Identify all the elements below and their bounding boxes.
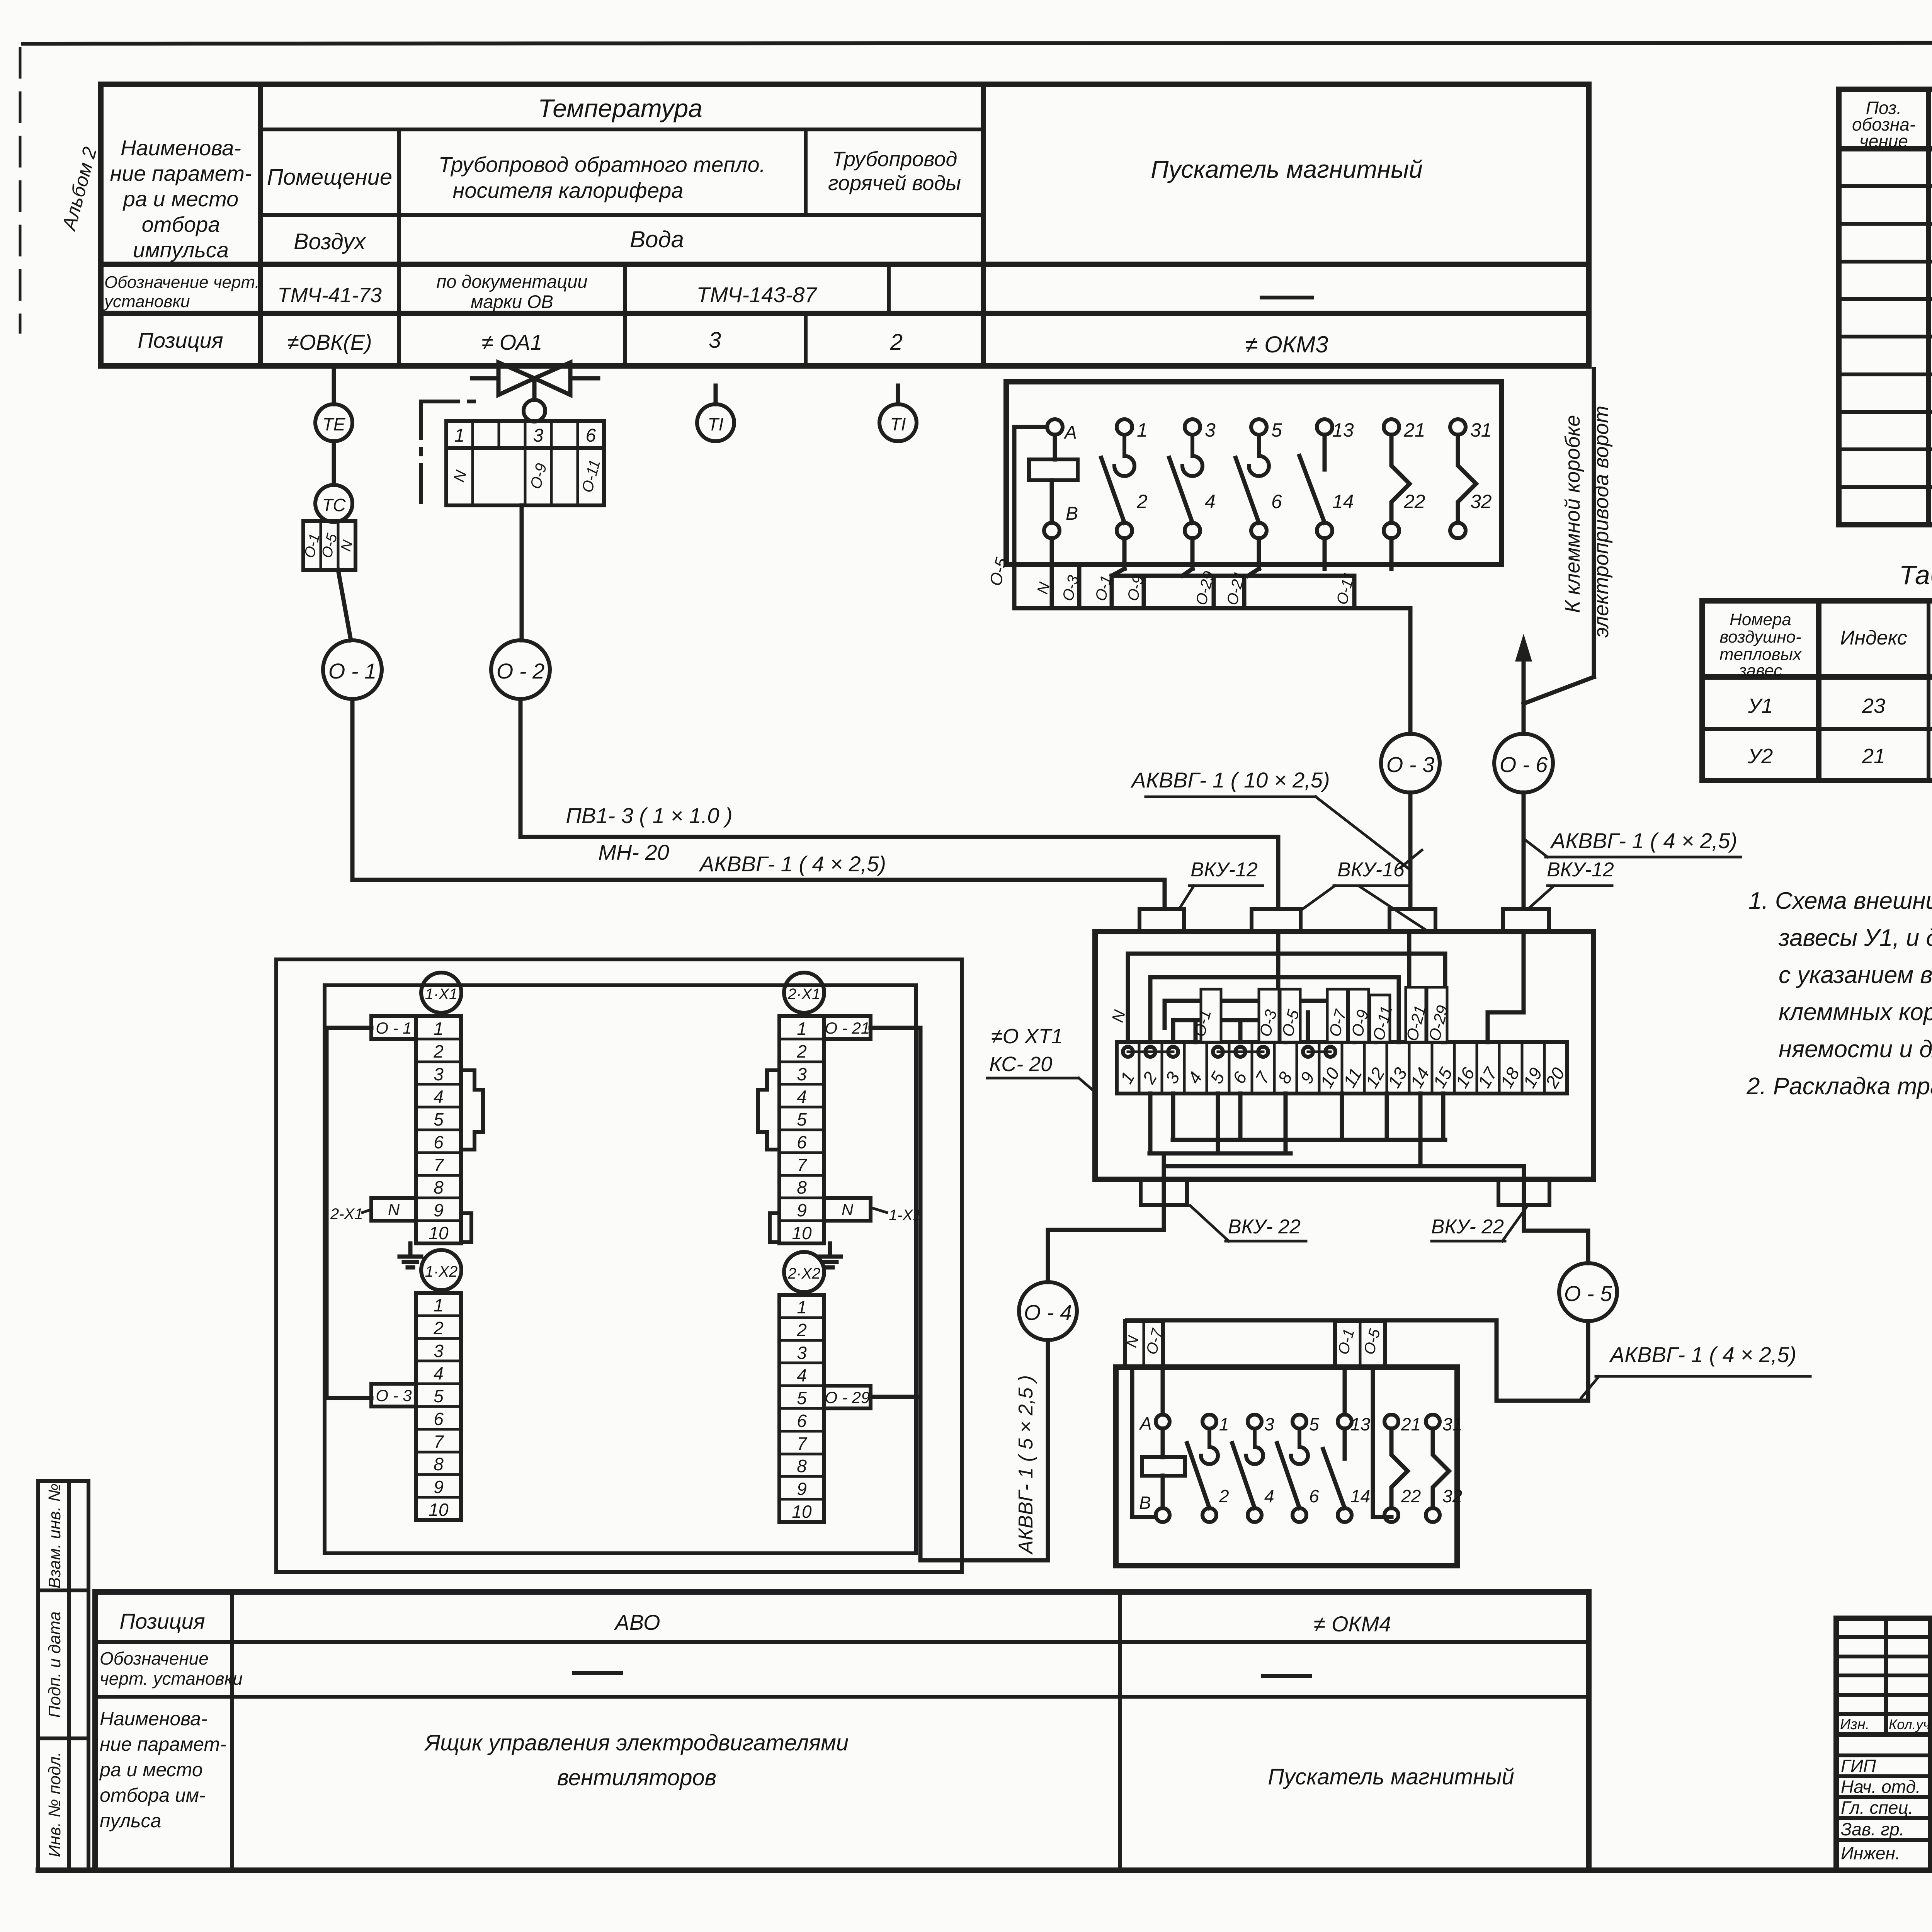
svg-text:13: 13 (1350, 1414, 1371, 1434)
svg-text:10: 10 (792, 1223, 812, 1243)
svg-text:N: N (338, 538, 356, 553)
svg-text:4: 4 (434, 1087, 444, 1107)
svg-text:31: 31 (1470, 419, 1492, 441)
svg-text:2. Раскладка трасс О-1...: 2. Раскладка трасс О-1... О-6 выполнена … (1746, 1073, 1932, 1100)
svg-text:2: 2 (1219, 1486, 1229, 1506)
magnetic starter OKM3 box (1006, 382, 1502, 565)
label VKU-22 left with leader (1190, 1206, 1306, 1241)
svg-text:АКВВГ- 1 ( 10 × 2,5): АКВВГ- 1 ( 10 × 2,5) (1130, 768, 1330, 792)
svg-text:1: 1 (454, 425, 465, 446)
svg-text:АКВВГ- 1 ( 5 × 2,5 ): АКВВГ- 1 ( 5 × 2,5 ) (1015, 1375, 1037, 1555)
terminal box XT1 KC-20 outline (1095, 932, 1594, 1179)
svg-text:пульса: пульса (100, 1810, 161, 1832)
svg-text:чение: чение (1859, 131, 1908, 151)
svg-text:22: 22 (1401, 1486, 1421, 1506)
XT1 top gland bump 4 (1503, 909, 1549, 932)
cable label AKVVG-1 (4x2.5) bottom with leader (1581, 1342, 1810, 1398)
connector label circle 1-X2 (421, 1250, 461, 1290)
svg-text:О - 1: О - 1 (328, 659, 376, 683)
svg-text:ТС: ТС (322, 495, 346, 515)
svg-text:7: 7 (434, 1155, 444, 1175)
svg-text:О-11: О-11 (579, 458, 604, 494)
wire O-1/O-3 left riser in AVO box (327, 1028, 371, 1398)
svg-text:3: 3 (1264, 1414, 1274, 1434)
svg-text:31: 31 (1442, 1414, 1462, 1434)
svg-text:ТI: ТI (890, 414, 906, 434)
svg-text:воздушно-: воздушно- (1719, 628, 1801, 646)
svg-text:ВКУ-12: ВКУ-12 (1190, 859, 1258, 881)
svg-text:1·Х2: 1·Х2 (425, 1263, 458, 1280)
label box N O-9 O-11 (under valve strip) (446, 448, 604, 505)
svg-text:1: 1 (797, 1019, 807, 1039)
wire O-6 down to XT1 bump4 (1522, 793, 1526, 909)
title block texts (1840, 1625, 1932, 1871)
svg-text:Кол.уч: Кол.уч (1889, 1716, 1930, 1732)
svg-text:1. Схема внешних проводок: 1. Схема внешних проводок выполнена для … (1748, 888, 1932, 914)
svg-text:8: 8 (797, 1456, 807, 1476)
svg-text:О-9: О-9 (527, 461, 550, 491)
cable label AKVVG-1(10x2.5) with leader (1130, 768, 1410, 869)
svg-text:Помещение: Помещение (267, 165, 392, 190)
svg-text:9: 9 (434, 1477, 444, 1497)
svg-text:Индекс: Индекс (1840, 627, 1907, 649)
svg-text:марки ОВ: марки ОВ (471, 291, 553, 312)
svg-text:1: 1 (434, 1295, 444, 1315)
svg-text:У1: У1 (1748, 694, 1773, 718)
wire label box N at 1-X1 term 9 (371, 1198, 416, 1221)
OKM3 wire stubs with labels to bus (1034, 538, 1358, 608)
svg-text:7: 7 (797, 1155, 807, 1175)
svg-text:13: 13 (1332, 419, 1354, 441)
OKM4 coil terminal A (1139, 1413, 1170, 1434)
svg-text:4: 4 (1184, 1068, 1206, 1087)
svg-text:АВО: АВО (614, 1610, 660, 1634)
wire box to O-1 circle (338, 570, 351, 640)
svg-text:≠ ОА1: ≠ ОА1 (481, 330, 542, 354)
OKM3 internal bottom jogs (1112, 538, 1391, 576)
XT1 jumper terminals 1-2-3 (1123, 1047, 1178, 1057)
svg-text:вентиляторов: вентиляторов (557, 1765, 716, 1790)
svg-text:2: 2 (1136, 491, 1148, 512)
svg-text:Зав. гр.: Зав. гр. (1841, 1819, 1904, 1839)
svg-text:Номера: Номера (1730, 610, 1791, 629)
wire strip to O-2 circle (520, 505, 524, 640)
title block frame (1836, 1618, 1932, 1870)
control box AVO inner outline (325, 985, 916, 1553)
table: bottom equipment row (38, 1592, 1932, 1870)
page frame left border (19, 48, 22, 332)
svg-text:1: 1 (1116, 1068, 1138, 1087)
trace circle O-2 (491, 640, 550, 699)
connector label circle 1-X1 (421, 973, 461, 1013)
wire label box N at 2-X1 term 9 (824, 1198, 871, 1221)
svg-text:Нач. отд.: Нач. отд. (1841, 1777, 1921, 1797)
svg-text:носителя калорифера: носителя калорифера (453, 178, 684, 202)
wire O-5 down to OKM4 bus (1497, 1320, 1588, 1401)
svg-text:6: 6 (586, 425, 596, 446)
OKM3 contact 5-6 (1236, 419, 1282, 538)
OKM3 coil terminal B (1044, 503, 1078, 538)
svg-text:2·Х2: 2·Х2 (787, 1265, 821, 1282)
2-X1 side connector tabs (758, 1070, 779, 1242)
OKM3 coil terminal A (1047, 419, 1077, 443)
svg-text:2: 2 (796, 1320, 807, 1340)
svg-text:6: 6 (797, 1411, 807, 1431)
svg-text:У2: У2 (1748, 745, 1773, 768)
svg-text:отбора: отбора (142, 212, 220, 236)
svg-text:МН- 20: МН- 20 (598, 840, 669, 864)
notes text block (1746, 888, 1932, 1100)
svg-text:Воздух: Воздух (294, 229, 366, 254)
page frame top border (23, 43, 1932, 44)
svg-text:23: 23 (1862, 694, 1885, 718)
XT1 wire labels above strip (1108, 1003, 1452, 1043)
svg-text:ТЕ: ТЕ (323, 414, 346, 434)
svg-text:О - 1: О - 1 (376, 1019, 412, 1037)
thermometer TI (left) (697, 386, 734, 441)
magnetic starter OKM4 box (1116, 1367, 1457, 1566)
svg-text:10: 10 (429, 1223, 449, 1243)
svg-text:АКВВГ- 1 ( 4 × 2,5): АКВВГ- 1 ( 4 × 2,5) (1550, 828, 1737, 853)
OKM4 contact 3-4 (1232, 1414, 1274, 1522)
wire O-1 down and right (AKVVG 4x2.5) (352, 699, 1165, 909)
svg-text:14: 14 (1350, 1486, 1370, 1506)
valve with actuator (472, 362, 598, 422)
svg-text:4: 4 (434, 1363, 444, 1383)
svg-text:О - 5: О - 5 (1564, 1281, 1612, 1306)
svg-text:4: 4 (1264, 1486, 1274, 1506)
svg-text:14: 14 (1332, 491, 1354, 512)
svg-text:завесы У1, и действительна д: завесы У1, и действительна для воздушно-… (1778, 925, 1932, 951)
OKM4 contact 21-22 (1384, 1414, 1421, 1522)
svg-text:О - 29: О - 29 (825, 1388, 870, 1406)
svg-text:5: 5 (1206, 1068, 1228, 1087)
label VKU-12 left with leader (1179, 859, 1263, 909)
svg-text:Инжен.: Инжен. (1841, 1843, 1900, 1863)
trace circle O-5 (1559, 1263, 1617, 1321)
svg-text:4: 4 (797, 1087, 807, 1107)
cable label PV1-3 (1x1.0) MN-20 (566, 803, 732, 864)
svg-text:горячей воды: горячей воды (828, 172, 961, 195)
OKM4 top bus wire (1127, 1318, 1497, 1323)
svg-text:3: 3 (434, 1341, 444, 1361)
svg-text:ПВ1- 3 ( 1 × 1.0 ): ПВ1- 3 ( 1 × 1.0 ) (566, 803, 732, 828)
svg-text:2: 2 (890, 330, 903, 355)
svg-text:3: 3 (797, 1343, 807, 1363)
svg-text:ние парамет-: ние парамет- (100, 1733, 226, 1755)
svg-text:Альбом 2: Альбом 2 (58, 145, 101, 233)
wire TE to TC (332, 441, 336, 485)
svg-text:3: 3 (434, 1064, 444, 1084)
OKM4 contact 1-2 (1187, 1414, 1229, 1522)
terminal label box O-1 O-5 N (under TC) (301, 521, 356, 570)
svg-text:КС- 20: КС- 20 (989, 1053, 1052, 1076)
svg-text:2: 2 (433, 1041, 444, 1061)
table: specification (top-right) (1839, 89, 1932, 525)
svg-text:9: 9 (1296, 1068, 1318, 1087)
svg-text:1·Х1: 1·Х1 (425, 986, 458, 1003)
wire label box O-29 at 2-X2 term 5 (824, 1386, 871, 1408)
svg-text:7: 7 (1251, 1068, 1274, 1087)
svg-text:2·Х1: 2·Х1 (787, 986, 821, 1003)
terminal strip 2-X2 (779, 1295, 824, 1522)
svg-text:ТI: ТI (708, 414, 724, 434)
XT1 wire label frames above strip (1201, 987, 1447, 1042)
svg-text:8: 8 (797, 1177, 807, 1197)
wire O-3 to XT1 (1401, 793, 1422, 909)
OKM3 contact 13-14 (1299, 419, 1354, 538)
svg-text:5: 5 (797, 1388, 807, 1408)
OKM4 label cells N O-7 (1123, 1321, 1166, 1367)
svg-text:10: 10 (792, 1502, 812, 1522)
terminal strip 2-X1 (779, 1016, 824, 1243)
left margin stamp column (38, 1481, 88, 1870)
svg-text:≠О ХТ1: ≠О ХТ1 (991, 1025, 1063, 1048)
svg-text:6: 6 (797, 1132, 807, 1152)
svg-text:22: 22 (1403, 491, 1425, 512)
label VKU-16 with leaders (1303, 859, 1427, 930)
svg-text:Взам. инв. №: Взам. инв. № (45, 1483, 64, 1588)
svg-text:Ящик управления электродвига: Ящик управления электродвигателями (424, 1730, 849, 1755)
svg-text:по документации: по документации (436, 271, 587, 292)
svg-text:2: 2 (1138, 1068, 1161, 1087)
OKM3 contact 1-2 (1101, 419, 1148, 538)
svg-text:Изн.: Изн. (1840, 1716, 1869, 1733)
wire from table to TE (332, 366, 336, 404)
thermometer TI (right) (879, 386, 917, 441)
svg-text:9: 9 (434, 1200, 444, 1220)
trace circle O-6 (1494, 734, 1553, 793)
sensor TE (315, 404, 352, 441)
svg-text:6: 6 (1228, 1068, 1251, 1087)
OKM4 contact 31-32 (1426, 1414, 1462, 1522)
svg-text:Трубопровод обратного тепло.: Трубопровод обратного тепло. (439, 152, 765, 177)
svg-text:черт. установки: черт. установки (100, 1668, 243, 1689)
svg-text:ВКУ- 22: ВКУ- 22 (1431, 1216, 1504, 1238)
wire label box O-21 at 2-X1 term 1 (824, 1016, 871, 1039)
svg-text:А: А (1139, 1413, 1152, 1434)
table: trace applicability title (1899, 560, 1932, 590)
svg-text:3: 3 (797, 1064, 807, 1084)
svg-text:с указанием в а индексов в: с указанием в а индексов в обозначении а… (1779, 962, 1932, 988)
svg-text:≠ОВК(Е): ≠ОВК(Е) (287, 330, 372, 354)
svg-text:АКВВГ- 1 ( 4 × 2,5): АКВВГ- 1 ( 4 × 2,5) (699, 852, 886, 876)
svg-text:21: 21 (1403, 419, 1425, 441)
table: parameter header (top-left) (101, 84, 1589, 366)
svg-text:32: 32 (1442, 1486, 1462, 1506)
sensor TC (315, 485, 352, 522)
XT1 internal wiring above strip (1128, 932, 1524, 1042)
cable label AKVVG-1 (4x2.5) on O-1 run (699, 852, 886, 876)
svg-text:О-5: О-5 (1361, 1327, 1384, 1357)
svg-text:К клеммной коробке: К клеммной коробке (1561, 415, 1584, 613)
svg-text:9: 9 (797, 1479, 807, 1499)
svg-text:2: 2 (433, 1318, 444, 1338)
svg-text:1: 1 (1219, 1414, 1229, 1434)
svg-text:АКВВГ- 1 ( 4 × 2,5): АКВВГ- 1 ( 4 × 2,5) (1609, 1342, 1796, 1367)
svg-text:Обозначение черт.: Обозначение черт. (104, 273, 260, 292)
ground at 2-X1 (819, 1243, 841, 1267)
OKM3 coil (1029, 435, 1078, 523)
XT1 bottom gland bump left (1141, 1179, 1187, 1205)
svg-text:1-Х1: 1-Х1 (889, 1207, 922, 1224)
label VKU-22 right with leader (1431, 1206, 1527, 1241)
1-X1 side connector tabs (461, 1070, 483, 1242)
OKM4 contact 5-6 (1277, 1414, 1319, 1522)
svg-text:электропривода ворот: электропривода ворот (1590, 406, 1613, 638)
svg-text:10: 10 (429, 1500, 449, 1520)
svg-text:N: N (451, 469, 470, 484)
terminal strip 1-X1 (416, 1016, 461, 1243)
XT1 top gland bump 2 (1252, 909, 1301, 932)
XT1 bottom gland bump right (1498, 1179, 1549, 1205)
svg-text:Инв. № подл.: Инв. № подл. (45, 1752, 64, 1857)
svg-text:Позиция: Позиция (138, 328, 223, 352)
label VKU-12 right with leader (1528, 859, 1614, 909)
svg-text:N: N (842, 1201, 854, 1219)
svg-text:Гл. спец.: Гл. спец. (1841, 1798, 1913, 1818)
svg-text:1: 1 (1137, 419, 1148, 441)
svg-text:Подп. и дата: Подп. и дата (45, 1611, 64, 1718)
svg-text:5: 5 (1309, 1414, 1319, 1434)
trace circle O-3 (1381, 734, 1440, 793)
wire XT1 left bump to O-4 (1048, 1205, 1164, 1282)
svg-text:9: 9 (797, 1200, 807, 1220)
wire A to left riser (1014, 427, 1047, 608)
table: trace applicability (1702, 601, 1932, 781)
svg-text:5: 5 (797, 1109, 807, 1129)
OKM3 bottom bus wire (1014, 608, 1410, 734)
svg-text:О - 4: О - 4 (1024, 1300, 1072, 1325)
svg-text:О - 21: О - 21 (825, 1019, 870, 1037)
svg-text:7: 7 (434, 1432, 444, 1452)
svg-text:Позиция: Позиция (119, 1609, 205, 1633)
OKM4 internal wires from glands (1132, 1367, 1391, 1517)
connector label circle 2-X2 (784, 1252, 824, 1292)
svg-text:3: 3 (533, 425, 544, 446)
svg-text:завес: завес (1738, 661, 1782, 680)
svg-text:≠ ОКМ3: ≠ ОКМ3 (1245, 332, 1328, 357)
svg-text:ВКУ- 22: ВКУ- 22 (1228, 1216, 1301, 1238)
wire label box O-3 at 1-X2 term 5 (371, 1384, 416, 1406)
svg-text:2-Х1: 2-Х1 (330, 1206, 363, 1223)
XT1 top gland bump 3 (1389, 909, 1435, 932)
trace circle O-4 (1019, 1282, 1077, 1340)
svg-text:Пускатель магнитный: Пускатель магнитный (1151, 155, 1423, 183)
OKM3 contact 31-32 (1450, 419, 1492, 538)
OKM4 label cells O-1 O-5 (1335, 1321, 1385, 1367)
svg-text:6: 6 (1309, 1486, 1319, 1506)
svg-text:7: 7 (797, 1434, 807, 1454)
svg-text:установки: установки (103, 292, 190, 311)
trace circle O-1 (323, 640, 382, 699)
svg-text:32: 32 (1470, 491, 1492, 512)
svg-text:импульса: импульса (133, 238, 229, 262)
note 2-X1 at N box (330, 1206, 371, 1223)
rotated note К клеммной коробке электропривода ворот (1561, 406, 1613, 638)
svg-text:ТМЧ-41-73: ТМЧ-41-73 (277, 284, 382, 307)
svg-text:6: 6 (434, 1409, 444, 1429)
XT1 jumper terminals 9-10 (1303, 1047, 1335, 1057)
wire XT1 right bump to O-5 (1524, 1205, 1588, 1263)
wire O-6 up to gate box leader (1522, 649, 1526, 734)
terminal strip 1-X2 (416, 1293, 461, 1520)
svg-text:О-5: О-5 (986, 556, 1011, 588)
leader to gate drive terminal box (1515, 369, 1594, 704)
XT1 jumper terminals 5-6-7 (1213, 1047, 1268, 1057)
svg-text:1: 1 (434, 1019, 444, 1039)
svg-text:≠ ОКМ4: ≠ ОКМ4 (1314, 1612, 1391, 1636)
XT1 top gland bump 1 (1139, 909, 1184, 932)
svg-text:4: 4 (797, 1365, 807, 1385)
terminal strip 1 3 6 (valve positioner) (446, 421, 604, 448)
label O-5 at OKM3 left (986, 556, 1011, 588)
svg-text:Вода: Вода (630, 226, 684, 252)
svg-text:5: 5 (434, 1109, 444, 1129)
svg-text:3: 3 (1161, 1068, 1184, 1087)
svg-text:ра и место: ра и место (122, 187, 239, 211)
svg-text:Наименова-: Наименова- (100, 1708, 207, 1730)
svg-text:ВКУ-16: ВКУ-16 (1337, 859, 1405, 881)
svg-text:ГИП: ГИП (1841, 1756, 1876, 1776)
control box AVO outer outline (276, 959, 962, 1572)
wire O-2 down and right (PV1-3) (520, 699, 1278, 909)
cable label AKVVG-1 (4x2.5) right with leader (1524, 828, 1741, 857)
svg-text:Температура: Температура (538, 94, 702, 122)
svg-text:ВКУ-12: ВКУ-12 (1547, 859, 1614, 881)
svg-text:няемости и длин трасс .: няемости и длин трасс . (1779, 1036, 1932, 1063)
svg-text:5: 5 (434, 1386, 444, 1406)
OKM3 contact 21-22 (1384, 419, 1425, 538)
svg-text:5: 5 (1271, 419, 1282, 441)
svg-text:1: 1 (797, 1297, 807, 1317)
svg-text:О - 3: О - 3 (376, 1386, 412, 1405)
connector label circle 2-X1 (784, 973, 824, 1013)
svg-text:N: N (1108, 1008, 1129, 1024)
svg-text:ра и место: ра и место (99, 1759, 203, 1781)
XT1 terminal strip 1..20 (1116, 1042, 1568, 1094)
note 1-X1 at N box (871, 1207, 922, 1224)
svg-text:О - 6: О - 6 (1500, 752, 1548, 777)
OKM4 coil terminal B (1139, 1493, 1170, 1522)
cable label AKVVG-1(5x2.5) rotated (1015, 1375, 1037, 1555)
wire label box O-1 at 1-X1 term 1 (371, 1016, 416, 1039)
svg-text:Таблица применяемости и дли: Таблица применяемости и длин трасс (1899, 560, 1932, 590)
svg-text:8: 8 (1274, 1068, 1296, 1087)
svg-text:ние парамет-: ние парамет- (110, 161, 252, 185)
OKM4 contact 13-14 (1323, 1414, 1371, 1522)
XT1 internal wiring below strip (1150, 1094, 1524, 1205)
rotated margin note Альбом 2 (58, 145, 101, 233)
svg-text:отбора им-: отбора им- (100, 1784, 206, 1806)
svg-text:В: В (1066, 503, 1078, 524)
svg-text:3: 3 (1205, 419, 1216, 441)
svg-text:8: 8 (434, 1177, 444, 1197)
svg-text:ТМЧ-143-87: ТМЧ-143-87 (697, 282, 818, 307)
svg-text:Наименова-: Наименова- (121, 136, 241, 160)
svg-text:21: 21 (1862, 745, 1885, 768)
ground at 1-X1 (400, 1243, 421, 1267)
svg-text:клеммных коробок и маркиро: клеммных коробок и маркировке трасс согл… (1779, 999, 1932, 1026)
svg-text:О - 3: О - 3 (1386, 752, 1434, 777)
svg-text:Обозначение: Обозначение (100, 1648, 209, 1668)
svg-text:2: 2 (796, 1041, 807, 1061)
wire O-4 down to control box (920, 1340, 1048, 1560)
svg-text:N: N (388, 1201, 400, 1219)
svg-text:4: 4 (1205, 491, 1216, 512)
label XT1 KC-20 with leader (987, 1025, 1096, 1093)
OKM3 contact 3-4 (1169, 419, 1216, 538)
